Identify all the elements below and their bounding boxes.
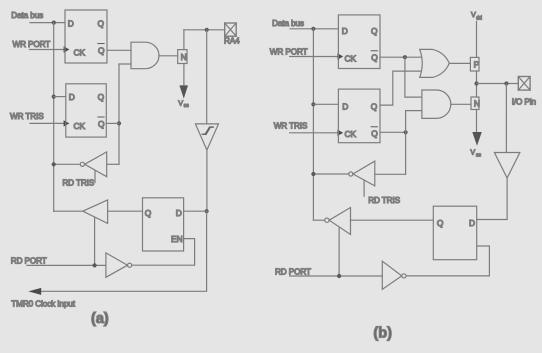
arrowhead TMR0 clock input [28, 288, 41, 295]
svg-text:Q: Q [98, 19, 105, 29]
svg-text:Q: Q [371, 129, 378, 139]
pin Q U2a [98, 92, 105, 102]
svg-text:V: V [471, 10, 476, 19]
wire TRIS vert to RD TRIS buffer (b) [375, 173, 406, 175]
wire latch Q to buffer (a) [108, 210, 143, 212]
svg-text:N: N [181, 52, 187, 62]
bubble RD PORT (a) [128, 263, 132, 267]
buffer latch readback (b) [329, 208, 350, 235]
pin EN U3a [171, 234, 183, 244]
svg-text:Q: Q [371, 53, 378, 63]
buffer RD PORT (b) [382, 261, 402, 289]
svg-text:TMR0 Clock Input: TMR0 Clock Input [11, 300, 75, 309]
bubble RD PORT (b) [402, 274, 406, 278]
svg-text:Q: Q [98, 119, 105, 129]
wire WR TRIS (a) [30, 122, 64, 124]
svg-text:RA4: RA4 [224, 37, 240, 46]
label RA4 [224, 37, 240, 46]
buffer RD PORT (a) [106, 253, 128, 277]
svg-text:D: D [342, 26, 348, 36]
pin D U2a [69, 92, 75, 102]
pin Q U3b [437, 218, 444, 228]
wire P to N channel (b) [476, 71, 478, 97]
pin Qbar U2b [371, 127, 378, 139]
svg-text:D: D [342, 101, 348, 111]
svg-text:Q: Q [145, 208, 152, 218]
pin D U1a [68, 19, 74, 29]
svg-text:Q: Q [98, 92, 105, 102]
label RD TRIS (a) [62, 178, 94, 187]
node Data bus (b) label [272, 19, 304, 28]
svg-text:D: D [469, 218, 475, 228]
label TMR0 Clock Input [11, 300, 75, 309]
svg-text:(a): (a) [91, 311, 109, 327]
svg-text:WR PORT: WR PORT [13, 40, 51, 49]
svg-text:D: D [68, 19, 74, 29]
junction data bus (a) top [52, 21, 56, 25]
wire buffer enable vertical (b) [338, 228, 340, 276]
svg-text:D: D [176, 208, 182, 218]
label I/O Pin (b) [512, 98, 537, 107]
svg-text:CK: CK [74, 48, 86, 58]
svg-text:EN: EN [171, 234, 183, 244]
wire data bus to TRIS D (b) [313, 103, 338, 105]
flip-flop U2b WR TRIS (b) [338, 89, 380, 143]
pin RA4 pad [225, 23, 237, 36]
junction Qbar node (b) [403, 55, 407, 59]
svg-text:(b): (b) [373, 326, 392, 342]
svg-text:WR PORT: WR PORT [270, 48, 308, 57]
junction data bus (b) top [311, 27, 315, 31]
wire VDD down to P (b) [476, 21, 478, 57]
wire RA4 node down to schmitt (a) [206, 30, 208, 124]
wire OR output to P gate (b) [449, 62, 470, 64]
wire data bus to TRIS D (a) [54, 96, 66, 98]
pin CK arrowhead FF1 (a) [64, 46, 70, 52]
pin Qbar U2a [98, 117, 105, 129]
svg-text:V: V [178, 98, 183, 107]
AND gate G1 (a) [131, 42, 159, 68]
pin Qbar U1a [98, 44, 105, 56]
wire drain to RA4 pin (a) [184, 29, 225, 31]
wire TRIS vert to RD TRIS buffer (a) [107, 163, 119, 165]
latch U3a [143, 198, 184, 251]
junction pin node (b) [474, 81, 478, 85]
node Data bus (a) label [11, 11, 43, 20]
pin CK arrowhead FF2 (b) [337, 130, 343, 136]
svg-text:CK: CK [345, 54, 357, 64]
svg-text:ss: ss [184, 103, 190, 109]
pin D U3b [469, 218, 475, 228]
wire RD TRIS enable stub (a) [94, 170, 96, 182]
wire buffer output to data bus (a) [54, 210, 83, 212]
wire U2a Qbar out (a) [106, 122, 119, 124]
wire AND output to N gate (a) [159, 55, 178, 57]
junction RD PORT enable (a) [93, 263, 97, 267]
power VDD label (b) [471, 10, 482, 22]
label RD TRIS (b) [368, 196, 400, 205]
node WR TRIS (a) label [10, 112, 44, 121]
pin Q U2b [371, 101, 378, 111]
svg-text:Q: Q [371, 101, 378, 111]
wire N drain up (a) [183, 30, 185, 50]
svg-text:V: V [470, 148, 475, 157]
wire input buffer to latch D (b) [477, 178, 507, 220]
wire Qbar down to AND (b) [405, 57, 422, 97]
wire data bus (a) vertical [53, 23, 55, 212]
junction RD TRIS data bus (a) [52, 162, 56, 166]
wire schmitt output down (a) [206, 150, 208, 211]
svg-text:ss: ss [476, 153, 482, 159]
pin CK U1a [74, 48, 86, 58]
pin D U3a [176, 208, 182, 218]
pin CK U1b [345, 54, 357, 64]
pin CK arrowhead FF2 (a) [64, 120, 70, 126]
junction TRIS Qbar (a) [117, 121, 121, 125]
latch U3b [433, 206, 476, 260]
svg-text:CK: CK [74, 121, 86, 131]
label (a) [91, 311, 109, 327]
pin Q U1a [98, 19, 105, 29]
transistor Q2 N (b) [471, 97, 480, 110]
junction data bus to TRIS D (a) [52, 95, 56, 99]
wire latch Q to buffer (b) [351, 219, 434, 221]
wire WR TRIS (b) [290, 132, 338, 134]
junction RA4 node (a) [205, 28, 209, 32]
wire U1a Qbar to AND gate (a) [107, 49, 131, 51]
node RD PORT (a) label [11, 256, 47, 265]
junction RD PORT enable (b) [337, 274, 341, 278]
wire RD PORT (a) [27, 264, 106, 266]
wire AND lower input (a) [119, 63, 131, 65]
ground Vss arrow (a) [179, 85, 188, 98]
pin Qbar U1b [371, 51, 378, 63]
buffer RD TRIS (b) [353, 161, 375, 186]
wire TRIS Qbar to AND lower input (b) [406, 111, 422, 175]
svg-text:Q: Q [371, 26, 378, 36]
wire RD TRIS output to data bus (b) [313, 173, 348, 175]
label (b) [373, 326, 392, 342]
wire RD TRIS output to data bus (a) [54, 163, 81, 165]
svg-text:D: D [69, 92, 75, 102]
svg-text:RD PORT: RD PORT [275, 268, 311, 277]
wire TRIS Qbar vertical (a) [118, 64, 120, 164]
transistor Q1 P (b) [470, 57, 479, 71]
bubble readback buffer (b) [325, 218, 329, 222]
flip-flop U1b WR PORT (b) [338, 15, 380, 69]
node WR PORT (b) label [270, 48, 308, 57]
junction data bus to TRIS D (b) [311, 102, 315, 106]
wire EN to RD PORT buffer (a) [132, 239, 195, 266]
wire N source down (a) [183, 64, 185, 86]
svg-text:WR TRIS: WR TRIS [10, 112, 44, 121]
svg-text:CK: CK [345, 129, 357, 139]
label Vss (a) [178, 98, 189, 109]
junction RD TRIS data bus (b) [311, 172, 315, 176]
pin D U2b [342, 101, 348, 111]
svg-text:WR TRIS: WR TRIS [274, 122, 308, 131]
bubble RD TRIS (b) [349, 172, 353, 176]
flip-flop U2a WR TRIS (a) [66, 84, 107, 137]
wire bubble to data bus (b) [313, 219, 324, 221]
wire latch EN to RD PORT buffer (b) [406, 246, 489, 276]
pin Q U3a [145, 208, 152, 218]
AND gate G2 (b) [422, 90, 451, 118]
buffer RD TRIS (a) [85, 152, 107, 177]
pin D U1b [342, 26, 348, 36]
wire data bus (a) horizontal [30, 22, 65, 24]
svg-text:P: P [474, 59, 480, 69]
wire N source down (b) [476, 110, 478, 133]
buffer latch readback (a) [83, 200, 108, 224]
svg-text:dd: dd [476, 16, 482, 22]
wire U2b Qbar out (b) [380, 131, 406, 133]
pin CK U2a [74, 121, 86, 131]
wire WR PORT (a) [30, 49, 65, 51]
junction input buffer tap (b) [504, 81, 508, 85]
pin CK arrowhead FF1 (b) [337, 53, 343, 59]
svg-text:Q: Q [98, 46, 105, 56]
wire AND output to N gate (b) [451, 103, 471, 105]
OR gate G1 (b) [420, 49, 450, 77]
wire U1b Qbar to OR gate (b) [380, 56, 421, 58]
ground Vss arrow (b) [472, 132, 482, 146]
wire data bus (b) horizontal [290, 28, 338, 30]
wire down to TMR0 line (a) [39, 211, 207, 291]
wire latch D to node (a) [184, 210, 207, 212]
svg-text:Data bus: Data bus [11, 11, 43, 20]
wire U2b Q to OR lower input (b) [380, 71, 421, 105]
label Vss (b) [470, 148, 481, 159]
pin CK U2b [345, 129, 357, 139]
wire RD TRIS enable stub (b) [363, 180, 365, 196]
buffer input (b) [494, 153, 520, 179]
wire data bus (b) vertical [312, 29, 314, 220]
svg-text:RD PORT: RD PORT [11, 256, 47, 265]
pin Q U1b [371, 26, 378, 36]
svg-text:RD TRIS: RD TRIS [368, 196, 400, 205]
schmitt trigger buffer (a) [195, 124, 218, 150]
wire RD PORT (b) [290, 275, 383, 277]
svg-text:I/O Pin: I/O Pin [512, 98, 537, 107]
wire WR PORT (b) [290, 56, 338, 58]
wire tap down to input buffer (b) [505, 84, 507, 153]
svg-text:Q: Q [437, 218, 444, 228]
junction latch D node (a) [205, 209, 209, 213]
svg-text:RD TRIS: RD TRIS [62, 178, 94, 187]
wire pin node to I/O pad (b) [477, 83, 519, 85]
junction TRIS Qbar (b) [404, 130, 408, 134]
flip-flop U1a WR PORT (a) [65, 10, 107, 63]
wire buffer enable vertical (a) [94, 217, 96, 265]
node WR PORT (a) label [13, 40, 51, 49]
node RD PORT (b) label [275, 268, 311, 277]
node WR TRIS (b) label [274, 122, 308, 131]
svg-text:N: N [474, 99, 480, 109]
bubble RD TRIS (a) [80, 162, 84, 166]
pin I/O pad (b) [518, 77, 530, 91]
svg-text:Data bus: Data bus [272, 19, 304, 28]
transistor Q1 N (a) [178, 50, 187, 64]
